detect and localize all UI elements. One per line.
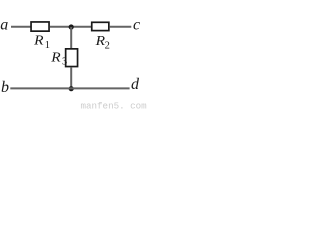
resistor R2 xyxy=(92,22,109,30)
resistor R3 xyxy=(66,49,78,67)
wire junction to R3 xyxy=(70,27,72,49)
svg-text:R: R xyxy=(33,32,44,47)
svg-text:d: d xyxy=(131,76,140,93)
label R3 xyxy=(50,50,67,68)
resistor R1 xyxy=(31,22,49,31)
wire a to R1 xyxy=(11,26,31,28)
svg-text:2: 2 xyxy=(105,41,110,52)
wire R2 to c xyxy=(110,26,132,28)
label R2 xyxy=(94,33,109,52)
svg-text:manfen5. com: manfen5. com xyxy=(81,100,148,111)
svg-text:1: 1 xyxy=(45,40,50,51)
svg-text:a: a xyxy=(0,17,8,34)
svg-text:b: b xyxy=(1,79,9,96)
node junction bottom xyxy=(69,86,74,91)
wire b to d xyxy=(10,87,129,89)
svg-text:R: R xyxy=(50,50,61,65)
label R1 xyxy=(33,32,50,51)
wire R1 to R2 xyxy=(50,26,91,28)
svg-text:c: c xyxy=(133,16,140,33)
svg-text:3: 3 xyxy=(62,56,67,67)
node junction top xyxy=(69,24,74,29)
wire R3 to bottom junction xyxy=(70,67,72,89)
